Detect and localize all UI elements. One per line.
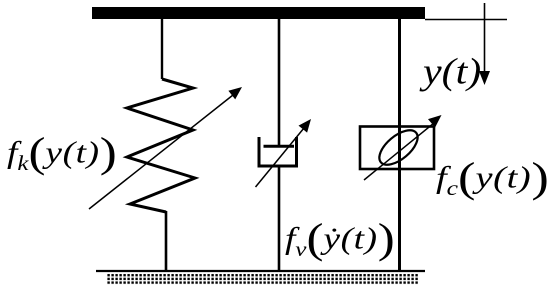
fc variable arrow (364, 115, 442, 180)
label fv(ydot(t)) (285, 224, 395, 260)
damper cup (259, 137, 297, 166)
ceiling extension line (425, 19, 507, 21)
label y(t) (423, 52, 481, 90)
variable element fc box (360, 127, 434, 170)
fc ellipse (373, 124, 423, 171)
label fk(y(t)) (7, 138, 117, 174)
wire right rod (398, 19, 401, 271)
wire damper top rod (278, 19, 281, 146)
damper variable arrow (256, 119, 312, 187)
ground line (96, 270, 425, 272)
damper piston plate (264, 145, 295, 148)
label fc(y(t)) (436, 163, 549, 199)
fixed ceiling bar (92, 7, 425, 19)
wire spring top rod (161, 19, 163, 79)
displacement arrow y(t) (479, 3, 490, 85)
wire damper bottom rod (278, 167, 281, 271)
spring variable arrow (89, 87, 242, 209)
spring fk (127, 79, 195, 212)
wire spring bottom rod (165, 211, 168, 271)
